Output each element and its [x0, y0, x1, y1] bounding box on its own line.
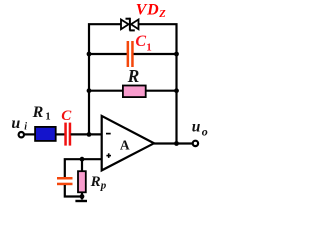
svg-text:A: A [120, 137, 130, 152]
svg-text:o: o [202, 125, 208, 139]
svg-text:Z: Z [158, 9, 166, 20]
wire: Rp top [81, 159, 83, 171]
wire: C1 branch right [134, 53, 177, 55]
svg-text:VD: VD [136, 2, 159, 19]
op-amp A [102, 116, 154, 170]
wire: ui to R1 [24, 133, 35, 135]
wire: non-inverting input [65, 159, 102, 177]
svg-text:R: R [90, 174, 101, 190]
wire: C to op-amp inverting input [71, 133, 102, 135]
svg-text:R: R [32, 104, 44, 121]
node dot left C1 [87, 52, 92, 57]
wire: top branch right (zener to right rail) [138, 24, 176, 143]
wire: output [154, 142, 193, 144]
svg-text:1: 1 [45, 112, 50, 123]
node dot input junction [87, 132, 92, 137]
wire: C1 branch left [89, 53, 127, 55]
node dot ground [80, 194, 85, 199]
wire: Cp bottom to ground node [65, 185, 82, 197]
wire: R branch left [89, 90, 123, 92]
zener diode VDZ [121, 18, 139, 31]
capacitor C [64, 123, 67, 146]
svg-text:u: u [11, 115, 20, 132]
output terminal uo [193, 141, 198, 146]
op-amp plus sign [106, 155, 111, 157]
capacitor C1 [127, 41, 130, 67]
node dot left R [87, 88, 92, 93]
node dot plus input [80, 157, 85, 162]
svg-text:p: p [100, 179, 107, 191]
node dot right R [174, 88, 179, 93]
svg-text:i: i [24, 121, 27, 132]
svg-text:R: R [127, 66, 140, 86]
wire: R branch right [146, 90, 177, 92]
node dot right C1 [174, 52, 179, 57]
input terminal ui [19, 132, 24, 137]
wire: R1 to C [56, 133, 64, 135]
resistor R1 [35, 127, 56, 141]
node dot output junction [174, 141, 179, 146]
resistor Rp [78, 171, 86, 192]
wire: Rp bottom [81, 192, 83, 199]
op-amp minus sign [106, 133, 111, 135]
svg-text:u: u [192, 118, 201, 135]
wire: top branch left (zener) [89, 24, 121, 134]
capacitor Cp plates [57, 177, 73, 180]
resistor R [123, 86, 146, 98]
svg-text:1: 1 [146, 42, 152, 54]
ground [75, 200, 87, 202]
svg-text:C: C [61, 108, 72, 124]
svg-text:C: C [135, 33, 146, 50]
